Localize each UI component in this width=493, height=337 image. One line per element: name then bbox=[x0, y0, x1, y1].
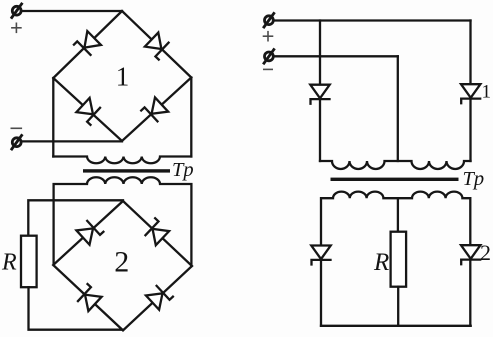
minus label (right) bbox=[264, 68, 272, 70]
diode bridge2 bottom-right bbox=[146, 283, 173, 310]
resistor R (right circuit) bbox=[391, 232, 407, 287]
svg-text:1: 1 bbox=[116, 62, 130, 92]
svg-text:R: R bbox=[373, 249, 389, 276]
svg-text:Tp: Tp bbox=[172, 159, 194, 181]
terminal minus input (left circuit) bbox=[12, 135, 22, 149]
terminal plus input (left circuit) bbox=[12, 4, 22, 18]
diode bridge1 bottom-right bbox=[141, 97, 168, 124]
plus label (left) bbox=[12, 23, 21, 32]
transformer Tp core (left circuit) bbox=[83, 169, 170, 172]
wire minus terminal to bridge1 bottom bbox=[21, 140, 122, 142]
wire left branch vertical bbox=[319, 21, 321, 162]
wire minus terminal to center tap bbox=[273, 55, 397, 57]
svg-text:2: 2 bbox=[480, 240, 491, 265]
wire resistor R bottom to rail (right circuit) bbox=[397, 287, 399, 326]
bridge 1 diamond outline bbox=[53, 11, 191, 141]
bridge 2 diamond outline bbox=[53, 201, 192, 330]
wire right branch vertical bbox=[469, 21, 471, 162]
transformer Tp primary (right circuit) bbox=[320, 161, 471, 169]
wire resistor R bottom to bridge2 bottom vertex bbox=[29, 287, 123, 330]
diode bridge2 top-left bbox=[76, 218, 103, 245]
wire center tap vertical bbox=[397, 56, 399, 161]
diode secondary left (right circuit) bbox=[311, 246, 330, 265]
diode bridge2 top-right bbox=[142, 218, 169, 245]
transformer Tp primary (left circuit) bbox=[53, 157, 191, 164]
terminal minus input (right circuit) bbox=[264, 50, 274, 64]
diode bridge1 top-right bbox=[145, 33, 172, 60]
plus label (right) bbox=[264, 32, 273, 41]
diode bridge1 top-left bbox=[74, 31, 101, 58]
diode bridge1 bottom-left bbox=[76, 98, 103, 125]
diode V1 left (right circuit) bbox=[310, 85, 329, 104]
wire bridge1 right vertex down to primary bbox=[190, 78, 192, 157]
transformer Tp core (right circuit) bbox=[331, 178, 459, 181]
transformer Tp secondary (left circuit) bbox=[54, 177, 192, 266]
wire resistor R top to bridge2 top vertex bbox=[28, 200, 123, 235]
transformer Tp secondary (right circuit) bbox=[321, 192, 470, 326]
wire bridge1 left vertex down to primary bbox=[52, 78, 54, 157]
wire center tap to resistor R (right circuit) bbox=[397, 198, 399, 232]
resistor R (left circuit) bbox=[21, 236, 37, 288]
diode 2 secondary right (right circuit) bbox=[461, 245, 480, 264]
wire plus terminal to right branch bbox=[273, 19, 470, 21]
wire plus terminal to bridge1 top bbox=[21, 10, 122, 12]
diode 1 right (right circuit) bbox=[461, 84, 480, 103]
diode bridge2 bottom-left bbox=[74, 284, 101, 311]
svg-text:2: 2 bbox=[114, 246, 129, 279]
minus label (left) bbox=[11, 127, 21, 129]
terminal plus input (right circuit) bbox=[264, 13, 274, 27]
svg-text:Tp: Tp bbox=[463, 168, 485, 190]
svg-text:1: 1 bbox=[482, 82, 492, 103]
wire bottom rail (right circuit) bbox=[321, 325, 471, 327]
svg-text:R: R bbox=[1, 250, 17, 276]
